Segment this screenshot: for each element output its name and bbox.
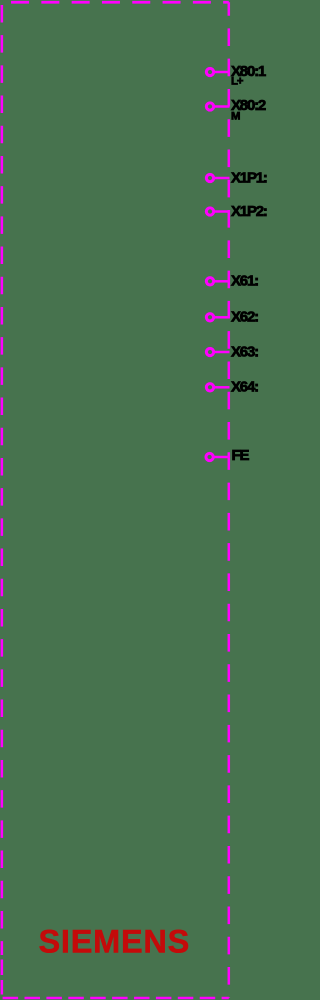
svg-text:M: M [231, 110, 240, 122]
device outline (dashed) bottom edge [2, 997, 229, 1000]
pin X64 wire stub [214, 386, 230, 389]
svg-text:SIEMENS: SIEMENS [39, 923, 191, 959]
pin X61 connection circle [206, 278, 213, 285]
svg-text:X61:: X61: [231, 273, 258, 290]
pin X1P2 wire stub [214, 210, 230, 213]
pin X61 wire stub [214, 280, 230, 283]
svg-text:X63:: X63: [231, 343, 258, 360]
pin X64 connection circle [206, 384, 213, 391]
svg-text:X64:: X64: [231, 379, 258, 396]
svg-text:L+: L+ [231, 76, 244, 88]
pin X63 wire stub [214, 351, 230, 354]
pin X63 connection circle [206, 348, 213, 355]
pin X80:1 connection circle [206, 68, 213, 75]
pin X62 connection circle [206, 314, 213, 321]
svg-text:X62:: X62: [231, 309, 258, 326]
pin X80:2 wire stub [214, 105, 230, 108]
pin X80:1 wire stub [214, 71, 230, 74]
pin X80:2 connection circle [206, 103, 213, 110]
pin FE connection circle [206, 453, 213, 460]
pin X1P1 connection circle [206, 174, 213, 181]
svg-text:X1P2:: X1P2: [231, 203, 267, 220]
device outline (dashed) top edge [2, 1, 229, 4]
svg-text:FE: FE [232, 447, 250, 464]
pin X1P2 connection circle [206, 208, 213, 215]
device outline (dashed) right edge [228, 2, 231, 998]
svg-text:X1P1:: X1P1: [231, 169, 267, 186]
pin X62 wire stub [214, 316, 230, 319]
pin FE wire stub [214, 456, 230, 459]
pin X1P1 wire stub [214, 177, 230, 180]
device outline (dashed) left edge lower section [1, 955, 4, 998]
device outline (dashed) left edge [1, 2, 4, 955]
